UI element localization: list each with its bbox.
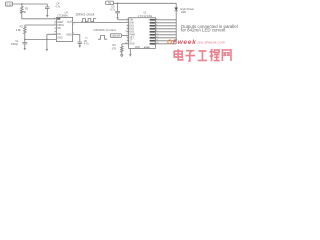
wire C4 drop [46, 4, 48, 7]
svg-text:VIN: VIN [129, 20, 133, 22]
svg-text:OUT: OUT [67, 22, 72, 24]
svg-text:R3: R3 [112, 43, 116, 47]
node rail-R1 junction [21, 3, 22, 4]
waveform square clock [82, 19, 97, 22]
ground arrow below C5 [79, 45, 82, 48]
svg-text:OFweek: OFweek [167, 39, 197, 46]
LED D1 [174, 8, 178, 11]
ground circle below R3 [121, 54, 123, 56]
arrow into VIN node [116, 17, 119, 20]
wire R3 top [121, 44, 123, 47]
wire clock from U4 to U2 DIM [73, 21, 129, 23]
wire R1 bottom to pin SET [22, 14, 57, 19]
node GND junction [46, 39, 47, 40]
glyph 工 [198, 51, 208, 60]
svg-text:LTC6906: LTC6906 [57, 14, 68, 18]
resistor R3 [121, 46, 124, 52]
svg-text:5V: 5V [108, 2, 111, 5]
pin stub row5 [55, 30, 57, 32]
glyph 子 [185, 51, 195, 61]
wire U2 GND bottom drop [129, 48, 131, 54]
wire VIN pin [118, 19, 129, 21]
net label ON/OFF box [110, 34, 121, 38]
pin label V+ dark [57, 18, 60, 20]
wire R3 bottom [121, 52, 123, 54]
pin stubs U2 left [127, 26, 129, 41]
svg-text:for 842mA LED current: for 842mA LED current [181, 27, 226, 32]
capacitor C5 [78, 42, 83, 43]
ground arrow left center [46, 49, 49, 52]
svg-text:GND: GND [135, 47, 140, 49]
wire DIV pin drop [47, 34, 57, 39]
ground arrow below U2 [129, 54, 132, 57]
wires LED outputs to bus [155, 20, 176, 44]
wire 3.3V rail [13, 3, 48, 5]
resistor R1 [20, 6, 23, 13]
pin stub row2 [55, 21, 57, 23]
glyph 程 [209, 49, 219, 61]
svg-text:LTC3216E: LTC3216E [138, 14, 153, 18]
svg-text:4.7u: 4.7u [110, 8, 116, 12]
wire R2 top stub [24, 25, 26, 27]
svg-text:PWM: PWM [129, 35, 135, 37]
wire RT pin to R3 [122, 43, 129, 45]
ground arrow below C1 [24, 48, 27, 50]
svg-text:DIV: DIV [57, 34, 61, 36]
svg-text:EN3: EN3 [129, 32, 134, 34]
node rail-C6 junction [117, 3, 118, 4]
pin stub row4 [55, 27, 57, 29]
svg-text:SET: SET [129, 38, 134, 40]
svg-text:LED: LED [181, 10, 186, 14]
op IC U4 oscillator box [56, 17, 72, 41]
wire C5 bottom [79, 43, 81, 45]
svg-text:(ee.ofweek.com: (ee.ofweek.com [198, 41, 225, 45]
svg-text:1500p: 1500p [11, 42, 19, 46]
wire R2 bottom [24, 34, 26, 43]
glyph 电 [174, 49, 183, 60]
waveform single pulse [98, 36, 107, 40]
svg-text:ON/OFF Control: ON/OFF Control [93, 28, 116, 32]
node R2-GND junction [24, 39, 25, 40]
svg-text:4.7u: 4.7u [84, 42, 90, 46]
watermark OFweek [167, 39, 231, 61]
net label 5V [106, 1, 114, 5]
svg-text:C4: C4 [56, 1, 60, 5]
wire R1 top [21, 4, 23, 6]
wire GND row from R2 to U4 [25, 38, 57, 40]
capacitor C4 [45, 7, 50, 8]
wire C4 bottom [46, 8, 48, 15]
wire C6 bottom arrow to VIN [117, 13, 119, 17]
IC U2 LED driver box [129, 18, 156, 49]
wire C1 bottom [24, 44, 26, 48]
pin dark labels LED1-LED9 [150, 19, 156, 45]
wire LED bus vertical [175, 11, 177, 44]
svg-text:EN2: EN2 [129, 29, 134, 31]
svg-text:10kHz clock: 10kHz clock [75, 12, 95, 16]
wire C6 drop [117, 3, 119, 11]
net label 3.3V [6, 2, 13, 7]
watermark chinese 电子工程网 [174, 49, 231, 61]
ground arrow below C4 [46, 15, 49, 18]
svg-text:ON/OFF: ON/OFF [112, 36, 121, 38]
resistor R2 [23, 27, 26, 34]
wire R2 top to pin DIV [25, 24, 57, 26]
svg-text:DIM: DIM [129, 23, 133, 25]
svg-text:MOD: MOD [66, 34, 72, 36]
svg-text:2.8k: 2.8k [16, 28, 22, 32]
svg-text:4.7u: 4.7u [55, 5, 61, 9]
svg-text:OE: OE [57, 28, 61, 30]
wire rail to LED [175, 3, 177, 7]
wire OUT pin to C5 [73, 35, 80, 43]
wire to ground [46, 39, 48, 49]
svg-text:SGND: SGND [144, 47, 151, 49]
svg-text:27.4k: 27.4k [20, 10, 27, 14]
glyph 网 [222, 50, 231, 61]
capacitor C1 [23, 43, 28, 44]
svg-text:178: 178 [112, 47, 117, 51]
pin numbers right side [156, 18, 159, 44]
svg-text:RSET: RSET [57, 22, 64, 24]
svg-text:GND: GND [129, 44, 134, 46]
svg-text:EN1: EN1 [129, 26, 134, 28]
svg-text:GND: GND [57, 37, 62, 39]
wire ON/OFF to U2 [122, 35, 129, 37]
svg-text:PROG: PROG [57, 25, 64, 27]
svg-text:3.3V: 3.3V [6, 3, 12, 7]
svg-text:R1: R1 [25, 6, 29, 10]
wire 5V rail [114, 2, 177, 4]
capacitor C6 [115, 11, 120, 12]
